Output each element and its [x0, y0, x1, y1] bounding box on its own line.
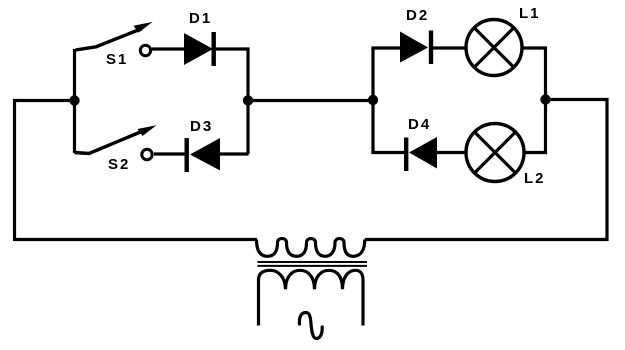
- wire right pair left vertical: [371, 48, 374, 153]
- AC source squiggle: [299, 313, 322, 339]
- node D right junction: [540, 94, 550, 104]
- switch S2 contact circle: [142, 149, 152, 159]
- wire N3 to D2: [371, 46, 400, 49]
- wire N3 to D4: [371, 151, 404, 154]
- svg-text:D4: D4: [408, 116, 431, 133]
- wire D3 to corner: [220, 152, 249, 155]
- node C right-pair left junction: [368, 95, 378, 105]
- wire D2 to L1: [432, 46, 465, 49]
- svg-text:L1: L1: [519, 5, 541, 22]
- wire S2 contact to D3: [154, 152, 186, 155]
- wire bottom left horizontal: [13, 238, 257, 241]
- diode D4: [404, 137, 437, 171]
- svg-text:D1: D1: [189, 10, 212, 27]
- switch S2 blade: [75, 125, 157, 153]
- wire L1 to corner: [523, 48, 546, 101]
- svg-text:D3: D3: [190, 118, 213, 135]
- svg-text:S2: S2: [108, 156, 130, 173]
- wire D1 to corner: [216, 47, 246, 50]
- transformer T1 core: [258, 262, 368, 266]
- wire D4 to L2: [437, 151, 466, 154]
- lamp L1: [466, 20, 522, 76]
- svg-text:D2: D2: [406, 7, 429, 24]
- wire L2 to corner: [525, 99, 546, 153]
- svg-text:S1: S1: [106, 51, 128, 68]
- diode D2: [400, 31, 433, 65]
- wire bottom right horizontal: [365, 238, 607, 241]
- wire left pair right vertical: [245, 49, 248, 154]
- node B left-pair right junction: [243, 95, 253, 105]
- transformer T1 secondary winding: [259, 270, 364, 325]
- wire left pair vertical: [73, 49, 76, 153]
- wire middle link: [248, 99, 373, 102]
- switch S1 contact circle: [140, 45, 150, 55]
- node A left junction: [69, 95, 79, 105]
- transformer T1 primary winding: [257, 239, 365, 257]
- wire right edge vertical: [546, 100, 608, 242]
- lamp L2: [466, 124, 524, 182]
- diode D3: [185, 138, 221, 172]
- wire S1 contact to D1: [152, 47, 185, 50]
- diode D1: [184, 32, 216, 66]
- switch S1 blade: [76, 22, 153, 50]
- svg-text:L2: L2: [524, 170, 546, 187]
- wire left edge vertical: [15, 101, 75, 240]
